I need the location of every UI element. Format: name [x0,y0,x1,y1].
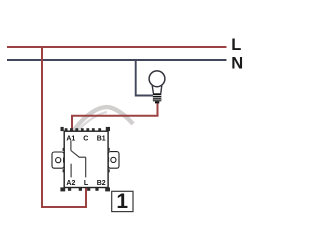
svg-text:B1: B1 [97,135,106,142]
svg-text:B2: B2 [97,180,106,187]
svg-text:A2: A2 [66,180,75,187]
top claw teeth [61,127,64,131]
svg-text:L: L [84,180,89,187]
wire L line [7,46,227,48]
bottom claw teeth [60,187,65,191]
svg-text:1: 1 [116,190,128,213]
switch symbol [71,141,86,178]
left mounting tab [52,152,64,168]
lamp E1 [149,71,165,104]
svg-text:C: C [83,135,88,142]
svg-text:L: L [231,36,241,54]
wire N to lamp [136,60,153,96]
wire lamp to A1 [72,103,158,130]
label box 1 [112,190,133,213]
right mounting tab [108,152,119,169]
wire L to switch L terminal [42,47,86,207]
svg-text:N: N [231,55,243,73]
switch box S1 [52,127,119,191]
wire N line [7,59,227,61]
